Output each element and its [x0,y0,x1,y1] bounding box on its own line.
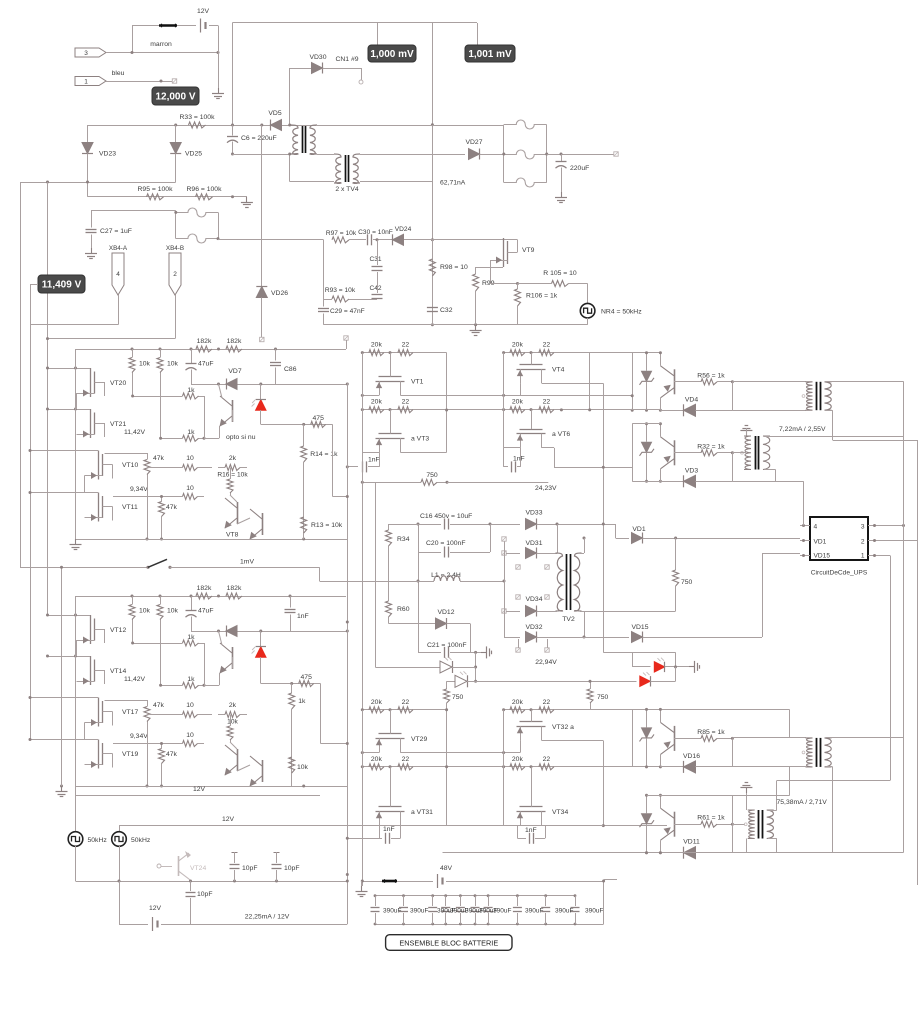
wire x347 bottom [347,853,349,925]
probe wire [377,23,379,46]
fuse current probe [132,25,159,27]
transistor VT24 [161,866,172,868]
svg-text:11,42V: 11,42V [124,676,146,683]
mosfet upper [531,710,533,722]
svg-text:2: 2 [861,539,865,546]
red LED 1 [632,666,650,668]
svg-text:1,001 mV: 1,001 mV [468,49,512,60]
svg-text:475: 475 [301,674,313,681]
svg-text:C6 = 220uF: C6 = 220uF [241,135,277,142]
ground r96 [246,197,248,203]
svg-text:20k: 20k [371,699,383,706]
svg-text:VD34: VD34 [525,596,542,603]
svg-text:10k: 10k [227,719,238,726]
gate feeds lower [30,450,85,452]
bus 182k [76,349,347,351]
svg-text:390uF: 390uF [410,908,428,915]
rail x347 [347,383,349,875]
svg-text:10k: 10k [297,764,309,771]
transformer TV2 [566,554,568,610]
svg-text:NR4 = 50kHz: NR4 = 50kHz [601,309,642,316]
svg-text:XB4-B: XB4-B [166,245,184,252]
rail x418 [418,524,420,653]
wires opto2 [632,423,660,425]
fuse block right [503,125,505,183]
terminal mid top [344,336,348,340]
svg-text:ENSEMBLE BLOC BATTERIE: ENSEMBLE BLOC BATTERIE [399,938,498,947]
red LED [260,384,262,400]
wire led feed [603,652,675,654]
wire y182 left [20,182,176,184]
row B 20k 22 [504,766,661,768]
svg-text:24,23V: 24,23V [535,485,557,492]
mosfet lower [390,767,392,807]
svg-text:VD4: VD4 [685,396,698,403]
svg-text:4: 4 [116,271,120,278]
ground up trafoB [746,788,748,794]
wire vd3 row [632,481,660,483]
svg-text:1,000 mV: 1,000 mV [370,49,414,60]
trafoA left bottom drop [789,767,791,795]
transistor R85 [674,726,676,751]
bottom row [76,539,348,541]
IC wire pin3 [878,525,904,527]
svg-text:R98 = 10: R98 = 10 [440,264,468,271]
wire join VD4 [732,382,734,411]
wires tv2 right [580,553,584,555]
svg-text:750: 750 [426,472,438,479]
svg-text:182k: 182k [197,585,212,592]
source rail upper [362,395,379,397]
svg-text:10k: 10k [139,361,151,368]
svg-text:22: 22 [402,399,410,406]
source rail upper [504,752,520,754]
svg-text:1nF: 1nF [383,826,395,833]
svg-text:TV2: TV2 [562,616,575,623]
svg-text:CircuitDeCde_UPS: CircuitDeCde_UPS [811,570,868,577]
svg-text:220uF: 220uF [570,165,589,172]
zener VD3 [646,424,648,442]
svg-text:1: 1 [861,553,865,560]
svg-text:12V: 12V [193,786,206,793]
wire xb4a [118,295,120,325]
cap bank 390uF [375,895,575,897]
left rail [75,349,77,539]
left rail [503,710,505,826]
svg-text:10k: 10k [167,608,179,615]
probe 1,001 mV [465,45,515,62]
wire 475 row [261,424,333,426]
transformer TV4 a [302,126,304,153]
wire R61 right [732,824,745,826]
svg-text:VD30: VD30 [309,54,326,61]
svg-text:a VT31: a VT31 [411,809,433,816]
source rail upper [362,752,379,754]
darlington pair [237,749,239,771]
ground R99 [475,325,477,331]
svg-text:182k: 182k [227,585,242,592]
wire VT32 drain [542,740,603,742]
svg-text:390uF: 390uF [383,908,401,915]
svg-text:22: 22 [543,399,551,406]
left rail x30 [30,284,32,740]
svg-text:VD3: VD3 [685,467,698,474]
svg-text:R13 = 10k: R13 = 10k [311,522,343,529]
row VD34 [502,609,506,613]
svg-text:C86: C86 [284,366,297,373]
svg-text:2 x TV4: 2 x TV4 [335,186,359,193]
svg-text:390uF: 390uF [493,908,511,915]
12V wire 2 [119,825,667,827]
wire VT29 drain [400,752,520,754]
wire [232,23,234,126]
probe 1,000 mV [368,45,416,62]
wire xb4b [175,295,177,339]
svg-text:22: 22 [543,756,551,763]
transformer 2 [755,436,757,470]
svg-text:390uF: 390uF [585,908,603,915]
zener VD11 [646,795,648,813]
row VD31 [502,551,506,555]
svg-text:1nF: 1nF [368,457,380,464]
wire y881 [76,881,348,883]
svg-text:bleu: bleu [112,70,125,77]
svg-text:22: 22 [543,699,551,706]
left rail [362,353,364,453]
wire r93 left [323,240,325,299]
svg-text:R96 = 100k: R96 = 100k [187,186,223,193]
svg-text:R16 = 10k: R16 = 10k [217,472,248,479]
wire 475 row [261,683,321,685]
svg-text:4: 4 [814,524,818,531]
opto transistor [232,647,234,669]
transformer bottom right [758,810,760,839]
mosfet lower [531,410,533,430]
ground C21 [481,652,487,654]
12V wire 1 [76,795,321,797]
svg-text:R106 = 1k: R106 = 1k [526,293,558,300]
IC CircuitDeCde_UPS [810,517,868,560]
ground c27 [91,248,93,254]
wire R56 to trafo [732,381,806,383]
IC wire pin4 [803,481,805,525]
left rail [362,710,364,826]
wire R85 to trafo [732,737,806,739]
svg-text:20k: 20k [512,756,524,763]
wire VT1 drain [400,395,632,397]
ground led [689,666,695,668]
svg-text:11,42V: 11,42V [124,429,146,436]
svg-text:10: 10 [186,455,194,462]
wire vd16 row right [732,766,806,768]
svg-text:VD31: VD31 [525,540,542,547]
mosfet upper [390,353,392,377]
svg-text:48V: 48V [440,865,453,872]
svg-text:20k: 20k [371,342,383,349]
wire VT6 drain [542,447,554,449]
mosfet C [98,451,100,480]
wire right col1 [446,353,448,453]
probe 11,409 V [38,275,85,293]
red LED 2 [476,681,637,683]
svg-text:VT24: VT24 [190,865,206,872]
row VD33 [490,524,520,526]
wire join VD11 [732,824,734,853]
svg-text:47k: 47k [166,504,178,511]
row A 20k 22 [362,352,446,354]
svg-text:VD5: VD5 [268,110,281,117]
svg-text:3: 3 [861,524,865,531]
svg-text:1nF: 1nF [297,613,309,620]
svg-text:3: 3 [84,50,88,57]
trafoB wires [746,839,748,853]
transistor R32 [674,440,676,465]
svg-text:C42: C42 [369,285,381,292]
top bus wire [233,22,478,24]
ENSEMBLE BLOC BATTERIE box [386,935,512,951]
left rail x61 [61,567,63,786]
svg-text:22: 22 [402,342,410,349]
wire 1mV [170,567,320,569]
wire out [547,154,616,156]
IC wire pin1 [878,555,890,557]
svg-text:1: 1 [84,79,88,86]
diode VD25 [175,125,177,143]
svg-text:22: 22 [402,699,410,706]
svg-text:C27 = 1uF: C27 = 1uF [100,228,132,235]
wire R97 row [218,239,324,241]
svg-text:750: 750 [681,579,693,586]
svg-text:50kHz: 50kHz [88,837,108,844]
svg-text:R 105 = 10: R 105 = 10 [543,270,577,277]
svg-text:22,25mA / 12V: 22,25mA / 12V [245,914,290,921]
diode VD23 [87,125,89,143]
svg-text:7,22mA / 2,55V: 7,22mA / 2,55V [779,426,826,433]
svg-text:VD1: VD1 [632,526,645,533]
mosfet D [98,493,100,522]
wire join VD3 [732,453,734,482]
svg-text:C30 = 10nF: C30 = 10nF [358,229,393,236]
svg-text:C31: C31 [369,256,381,263]
wire to IC vd15 [762,553,764,637]
svg-text:47k: 47k [153,455,165,462]
rail x603 [603,383,605,652]
wire VD24 VT9 [432,239,517,241]
rail x603 bottom [603,741,605,826]
svg-text:10k: 10k [139,608,151,615]
svg-text:1nF: 1nF [525,827,537,834]
wire 475 right [332,424,334,496]
source 50kHz a [75,795,77,832]
svg-text:62,71nA: 62,71nA [440,180,466,187]
wires opto3 [632,710,634,767]
right rail x903 [903,381,905,852]
source NR4 [587,284,589,304]
svg-text:47uF: 47uF [198,608,214,615]
svg-text:VD23: VD23 [99,151,116,158]
zener VD16 [646,709,648,727]
rail x375 [375,482,377,667]
wire 48v right [604,879,617,881]
svg-text:VD15: VD15 [814,553,831,560]
svg-text:VD33: VD33 [525,510,542,517]
svg-text:750: 750 [597,694,609,701]
svg-text:XB4-A: XB4-A [109,245,128,252]
resistor 10k mid [230,715,232,727]
svg-text:750: 750 [452,694,464,701]
svg-text:47uF: 47uF [198,361,214,368]
wires opto4 [647,795,790,797]
svg-text:a VT3: a VT3 [411,436,429,443]
svg-text:12V: 12V [197,8,210,15]
capacitor C27 [91,211,93,228]
svg-text:VD12: VD12 [437,609,454,616]
rail x362 [362,353,364,886]
svg-text:VT12: VT12 [110,627,126,634]
svg-text:12,000 V: 12,000 V [155,92,195,103]
mosfet B [90,409,92,438]
capacitor C6 [232,125,234,136]
wire VT4 drain [542,383,603,385]
svg-text:VT32 a: VT32 a [552,724,574,731]
zener VD4 [646,353,648,371]
bus 182k [76,596,347,598]
svg-text:20k: 20k [371,756,383,763]
terminals tv2 [516,565,520,569]
svg-text:11,409 V: 11,409 V [42,280,82,291]
ground [218,88,220,94]
svg-text:R33 = 100k: R33 = 100k [180,114,216,121]
wire c6 tv4 [233,154,292,156]
gate feeds upper [48,368,77,370]
source rail lower [362,825,379,827]
svg-text:10k: 10k [167,361,179,368]
mosfet upper [531,353,533,365]
row VD32 [504,637,520,639]
svg-text:182k: 182k [197,338,212,345]
source rail lower [504,447,520,449]
white LED 2 [447,681,455,683]
svg-text:C20 = 100nF: C20 = 100nF [426,540,466,547]
svg-text:R97 = 10k: R97 = 10k [326,230,357,237]
svg-text:VT14: VT14 [110,668,126,675]
svg-text:2: 2 [173,271,177,278]
svg-text:10pF: 10pF [242,865,258,872]
svg-text:VT4: VT4 [552,367,565,374]
wire 47uF row b2 [191,631,347,633]
svg-text:10: 10 [186,732,194,739]
svg-text:20k: 20k [512,342,524,349]
svg-text:VT9: VT9 [522,247,535,254]
mosfet upper [390,710,392,734]
darlington pair [237,502,239,524]
capacitor 220uF [561,154,563,161]
svg-text:R95 = 100k: R95 = 100k [138,186,174,193]
svg-text:20k: 20k [371,399,383,406]
wire 48V down [603,881,605,924]
svg-text:390uF: 390uF [555,908,573,915]
diode VD26 [261,125,263,287]
svg-text:22: 22 [402,756,410,763]
bottom row [76,786,348,788]
svg-text:VT21: VT21 [110,421,126,428]
corner to VD1 row [615,524,617,538]
rail x504 [504,541,506,637]
wire marron [106,52,218,54]
svg-text:9,34V: 9,34V [130,733,148,740]
ground 220uF [561,192,563,198]
svg-text:R93 = 10k: R93 = 10k [325,287,356,294]
left rail [503,353,505,448]
wire 1k join [204,643,206,685]
probe 12,000 V [152,87,199,105]
svg-text:C16 450v = 10uF: C16 450v = 10uF [420,513,472,520]
svg-text:VT29: VT29 [411,736,427,743]
mosfet lower [390,410,392,434]
svg-text:22,94V: 22,94V [535,659,557,666]
wire VT3 drain [400,452,446,454]
mosfet B [90,656,92,685]
ground tilted [746,431,748,437]
mosfet A [90,368,92,397]
svg-text:1k: 1k [298,698,306,705]
wire VT34 drain [542,825,603,827]
wire join VD16 [732,738,734,767]
probe wire 11409 [30,284,38,286]
svg-text:a VT6: a VT6 [552,431,570,438]
svg-text:C21 = 100nF: C21 = 100nF [427,642,467,649]
svg-text:1mV: 1mV [240,559,254,566]
wire [132,26,134,53]
transistor R56 [674,369,676,394]
svg-text:1nF: 1nF [513,456,525,463]
svg-text:R60: R60 [397,606,410,613]
top rail opto3 corner [789,710,791,738]
wire to ground [218,26,220,89]
svg-text:12V: 12V [222,816,235,823]
svg-text:475: 475 [313,415,325,422]
wire y324 [324,324,588,326]
gate feeds upper [48,615,77,617]
svg-text:VD15: VD15 [631,624,648,631]
svg-text:opto si nu: opto si nu [226,434,256,441]
wire 611 [584,611,676,613]
switch 1mV [20,567,148,569]
gate feeds lower [30,697,85,699]
left rail [75,596,77,786]
svg-text:VT20: VT20 [110,380,126,387]
svg-text:VD16: VD16 [683,753,700,760]
svg-text:VT10: VT10 [122,462,138,469]
wire 1k join [204,396,206,438]
svg-text:182k: 182k [227,338,242,345]
mosfet A [90,615,92,644]
row A 20k 22 [362,709,446,711]
opto transistor [232,400,234,422]
svg-text:10: 10 [186,485,194,492]
svg-text:20k: 20k [512,399,524,406]
row A 20k 22 [504,352,661,354]
wire 47uF row [191,384,347,386]
svg-text:marron: marron [150,41,172,48]
row B 20k 22 [504,409,661,411]
transformer 75,38mA [816,738,818,767]
svg-text:VD11: VD11 [683,839,700,846]
white LED 1 row [375,667,440,669]
connector 1 [75,77,106,86]
svg-text:VT11: VT11 [122,504,138,511]
svg-text:VD27: VD27 [465,139,482,146]
